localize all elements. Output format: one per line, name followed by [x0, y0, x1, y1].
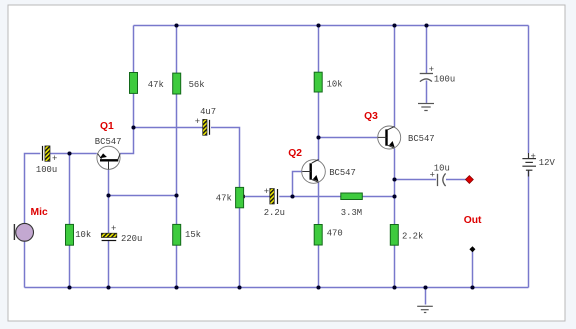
wire top rail	[134, 25, 529, 27]
terminal out positive	[466, 176, 474, 184]
wire 220u bottom	[108, 241, 110, 288]
wire Q3 emitter	[394, 148, 396, 224]
svg-text:Mic: Mic	[31, 207, 48, 218]
svg-text:10k: 10k	[327, 80, 343, 90]
wire right rail lower	[528, 171, 530, 288]
svg-text:+: +	[429, 65, 434, 75]
resistor R6 10k top	[314, 72, 322, 92]
svg-text:+: +	[264, 187, 269, 197]
wire left rail upper	[25, 154, 41, 224]
transistor Q1	[97, 146, 120, 169]
capacitor C5 100u top	[420, 74, 433, 82]
wire 2.2k bottom	[394, 245, 396, 288]
wire Q2 emitter	[318, 182, 320, 225]
svg-text:3.3M: 3.3M	[341, 208, 362, 218]
wire 2.2u to 3.3M	[279, 196, 341, 198]
capacitor C2 220u	[101, 224, 117, 241]
wire 47k2 bottom	[239, 208, 241, 288]
wire input node	[50, 153, 97, 155]
wire 100u2 to ground	[426, 81, 428, 103]
resistor R5 47k	[236, 187, 244, 207]
svg-text:47k: 47k	[148, 80, 164, 90]
wire left rail lower	[24, 240, 26, 287]
wire out ground stub	[472, 249, 474, 287]
resistor R7 470	[314, 225, 322, 246]
wire 10u branch	[395, 179, 437, 181]
resistor R2 47k	[130, 73, 138, 94]
wire Q1 base junction to 15k rail	[109, 195, 177, 197]
svg-text:BC547: BC547	[95, 137, 122, 147]
wire 3.3M to Q3 emitter rail	[362, 196, 394, 198]
wire Q3 collector	[394, 26, 396, 127]
svg-text:BC547: BC547	[329, 168, 356, 178]
resistor R9 2.2k	[390, 225, 398, 246]
wire 10k rail lower	[69, 245, 71, 287]
mic M1	[14, 223, 33, 241]
svg-text:56k: 56k	[189, 80, 205, 90]
wire 10k rail upper	[69, 154, 71, 225]
svg-text:15k: 15k	[185, 230, 201, 240]
ground under 100u2	[418, 104, 434, 111]
wire 47k2 to 2.2u	[244, 196, 270, 198]
wire Q1 base rail	[108, 169, 110, 233]
svg-text:BC547: BC547	[408, 134, 435, 144]
svg-text:2.2k: 2.2k	[402, 232, 423, 242]
wire 47k top	[133, 26, 135, 73]
svg-text:Q1: Q1	[100, 121, 114, 132]
terminal out negative	[469, 246, 475, 252]
svg-text:12V: 12V	[539, 158, 556, 168]
wire 100u2 top	[426, 26, 428, 74]
capacitor C4 2.2u	[264, 187, 278, 204]
svg-text:Q2: Q2	[288, 148, 302, 159]
wire Q1 collector	[120, 93, 133, 153]
battery B1 12V	[522, 153, 536, 177]
wire 470 bottom	[318, 245, 320, 288]
resistor R4 15k	[173, 224, 181, 245]
svg-text:47k: 47k	[216, 194, 232, 204]
svg-text:+: +	[52, 154, 57, 164]
tick 47k2 wire joint	[243, 195, 245, 198]
wire ground stub bottom	[425, 288, 427, 305]
svg-text:Q3: Q3	[364, 111, 378, 122]
transistor Q2	[302, 160, 326, 184]
wire 4u7 branch right	[211, 128, 240, 188]
transistor Q3	[378, 126, 401, 149]
svg-text:470: 470	[327, 229, 343, 239]
svg-text:2.2u: 2.2u	[264, 208, 285, 218]
capacitor C6 10u	[438, 173, 446, 186]
svg-text:Out: Out	[464, 215, 482, 226]
svg-text:100u: 100u	[434, 75, 455, 85]
wire 4u7 branch left	[134, 127, 203, 129]
svg-text:+: +	[195, 117, 200, 127]
wire Q2 collector	[318, 92, 320, 161]
svg-text:100u: 100u	[36, 165, 57, 175]
svg-text:220u: 220u	[121, 234, 142, 244]
svg-text:+: +	[531, 152, 536, 162]
wire 10u to out terminal	[446, 179, 467, 181]
ground bottom	[417, 306, 433, 312]
svg-text:4u7: 4u7	[200, 107, 216, 117]
capacitor C3 4u7	[195, 117, 210, 135]
wire 10k2 top	[318, 26, 320, 73]
wire 56k top	[176, 26, 178, 74]
resistor R3 56k	[173, 73, 181, 94]
wire bottom rail	[25, 287, 529, 289]
svg-text:10k: 10k	[75, 230, 91, 240]
svg-text:+: +	[111, 224, 116, 234]
wire 15k bottom	[176, 245, 178, 287]
resistor R8 3.3M	[341, 193, 363, 200]
svg-text:10u: 10u	[434, 164, 450, 174]
resistor R1 10k	[66, 224, 74, 245]
capacitor C1 100u input	[43, 146, 58, 164]
wire Q3 base	[319, 137, 379, 139]
wire 56k-15k rail	[176, 94, 178, 224]
wire Q2 base	[293, 172, 303, 197]
wire right rail upper	[528, 26, 530, 154]
